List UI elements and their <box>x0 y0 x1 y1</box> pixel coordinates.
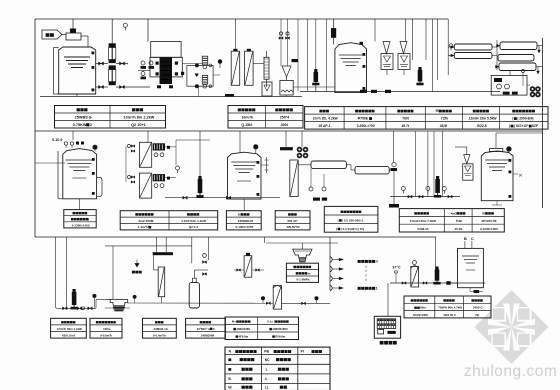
svg-text:B: B <box>464 237 467 241</box>
svg-text:5-10-9: 5-10-9 <box>52 138 62 142</box>
svg-text:760t: 760t <box>402 117 410 121</box>
svg-text:0-1300×1250: 0-1300×1250 <box>236 225 254 229</box>
svg-text:250*4: 250*4 <box>280 116 289 120</box>
svg-text:2P1000 PE: 2P1000 PE <box>481 219 496 223</box>
svg-text:) 4.4°C(30°C) 70]: ) 4.4°C(30°C) 70] <box>341 227 364 231</box>
svg-text:m: m <box>308 271 311 275</box>
svg-text:2m³h 20L 4.2kW: 2m³h 20L 4.2kW <box>313 117 339 121</box>
svg-text:W.: W. <box>228 385 232 389</box>
svg-text:2m2-450M: 2m2-450M <box>138 219 153 223</box>
svg-text:P4B: P4B <box>456 219 463 223</box>
svg-text:) 2.0 250-560+L: ) 2.0 250-560+L <box>342 218 364 222</box>
svg-text:12m/H 15m 5.5kW: 12m/H 15m 5.5kW <box>469 117 498 121</box>
svg-text:M+: M+ <box>232 320 236 324</box>
svg-text:4F9.8w: 4F9.8w <box>238 335 248 339</box>
svg-text:L: L <box>266 368 268 372</box>
svg-text:0.1s: 0.1s <box>267 320 273 324</box>
svg-text:0.75KW·: 0.75KW· <box>73 123 88 127</box>
svg-text:250 30°: 250 30° <box>287 219 298 223</box>
svg-text:h: h <box>213 327 215 331</box>
svg-text:(: ( <box>338 218 339 222</box>
svg-text:NC: NC <box>265 358 270 362</box>
svg-text:1.4m³h²: 1.4m³h² <box>138 225 149 229</box>
svg-text:CB2 30-2: CB2 30-2 <box>443 313 456 317</box>
svg-text:0-1200×1400: 0-1200×1400 <box>72 223 90 227</box>
svg-text:C: C <box>471 237 474 241</box>
svg-text:(: ( <box>336 227 337 231</box>
svg-text:8ZF: 8ZF <box>532 124 538 128</box>
svg-text:400t: 400t <box>281 123 289 127</box>
svg-text:Q.15t2: Q.15t2 <box>241 123 252 127</box>
svg-text:4 10/7.5Ah 1.1kW: 4 10/7.5Ah 1.1kW <box>181 219 206 223</box>
svg-text:10³MΩ³ ×2: 10³MΩ³ ×2 <box>197 327 211 331</box>
svg-text:PB: PB <box>264 350 269 354</box>
svg-text:CDM-10: CDM-10 <box>417 227 428 231</box>
svg-text:37°C: 37°C <box>392 266 400 270</box>
svg-text:B.: B. <box>228 377 231 381</box>
svg-text:100m: 100m <box>103 327 111 331</box>
svg-text:GD2-8: GD2-8 <box>477 124 487 128</box>
svg-text:10m³/h 8m 2.2kW: 10m³/h 8m 2.2kW <box>124 116 155 120</box>
svg-text:) 2000-8(4): ) 2000-8(4) <box>517 117 533 121</box>
svg-text:Q2 2-4: Q2 2-4 <box>189 225 199 229</box>
svg-text:0m22×228t: 0m22×228t <box>413 313 428 317</box>
svg-text:2: 2 <box>90 123 92 127</box>
svg-text:715h: 715h <box>441 117 449 121</box>
svg-text:4082/4380: 4082/4380 <box>236 327 250 331</box>
svg-text:140MΩ4M: 140MΩ4M <box>200 333 214 337</box>
svg-text:Φ750E 2: Φ750E 2 <box>358 117 371 121</box>
svg-text:1: 1 <box>376 287 378 291</box>
svg-text:Q2 10+1: Q2 10+1 <box>131 123 146 127</box>
svg-text:430t 10+9: 430t 10+9 <box>62 333 75 337</box>
svg-text:45.7B: 45.7B <box>454 227 463 231</box>
svg-text:0-1200×1050: 0-1200×1050 <box>480 227 498 231</box>
svg-text:25WBS 8-: 25WBS 8- <box>75 116 93 120</box>
svg-text:zhulong.com: zhulong.com <box>464 363 557 380</box>
svg-text:0-1.4MPa: 0-1.4MPa <box>296 278 309 282</box>
svg-text:n: n <box>376 260 378 264</box>
svg-text:PI: PI <box>301 350 304 354</box>
svg-text:DN.50*50: DN.50*50 <box>287 225 300 229</box>
svg-text:2450MΩ·M: 2450MΩ·M <box>238 219 254 223</box>
svg-text:LL: LL <box>265 385 269 389</box>
svg-text:45.7t: 45.7t <box>401 124 409 128</box>
svg-text:75kPK 80h 4.7kW: 75kPK 80h 4.7kW <box>438 306 462 310</box>
svg-text:R29.6w: R29.6w <box>275 335 286 339</box>
svg-text:0-200L×700: 0-200L×700 <box>357 124 375 128</box>
svg-text:2450°C: 2450°C <box>473 306 484 310</box>
svg-text:0.5m³h 60m 1.1kW: 0.5m³h 60m 1.1kW <box>57 327 82 331</box>
svg-text:42MΩ3·mL: 42MΩ3·mL <box>154 327 169 331</box>
svg-text:10m³/h: 10m³/h <box>241 116 253 120</box>
svg-text:25 AP-1: 25 AP-1 <box>319 124 331 128</box>
svg-text:9-0.9m³h: 9-0.9m³h <box>100 333 112 337</box>
svg-text:48.9t: 48.9t <box>440 124 448 128</box>
svg-text:70t: 70t <box>475 313 479 317</box>
svg-text:0-0.4m³/h: 0-0.4m³/h <box>153 333 166 337</box>
svg-text:4.: 4. <box>265 377 268 381</box>
svg-text:80m: 80m <box>420 306 426 310</box>
svg-text:4380/21800: 4380/21800 <box>272 327 288 331</box>
svg-text:) 947×10³: ) 947×10³ <box>514 124 529 128</box>
svg-text:0.9m/H 20m 7.4kW: 0.9m/H 20m 7.4kW <box>410 219 436 223</box>
